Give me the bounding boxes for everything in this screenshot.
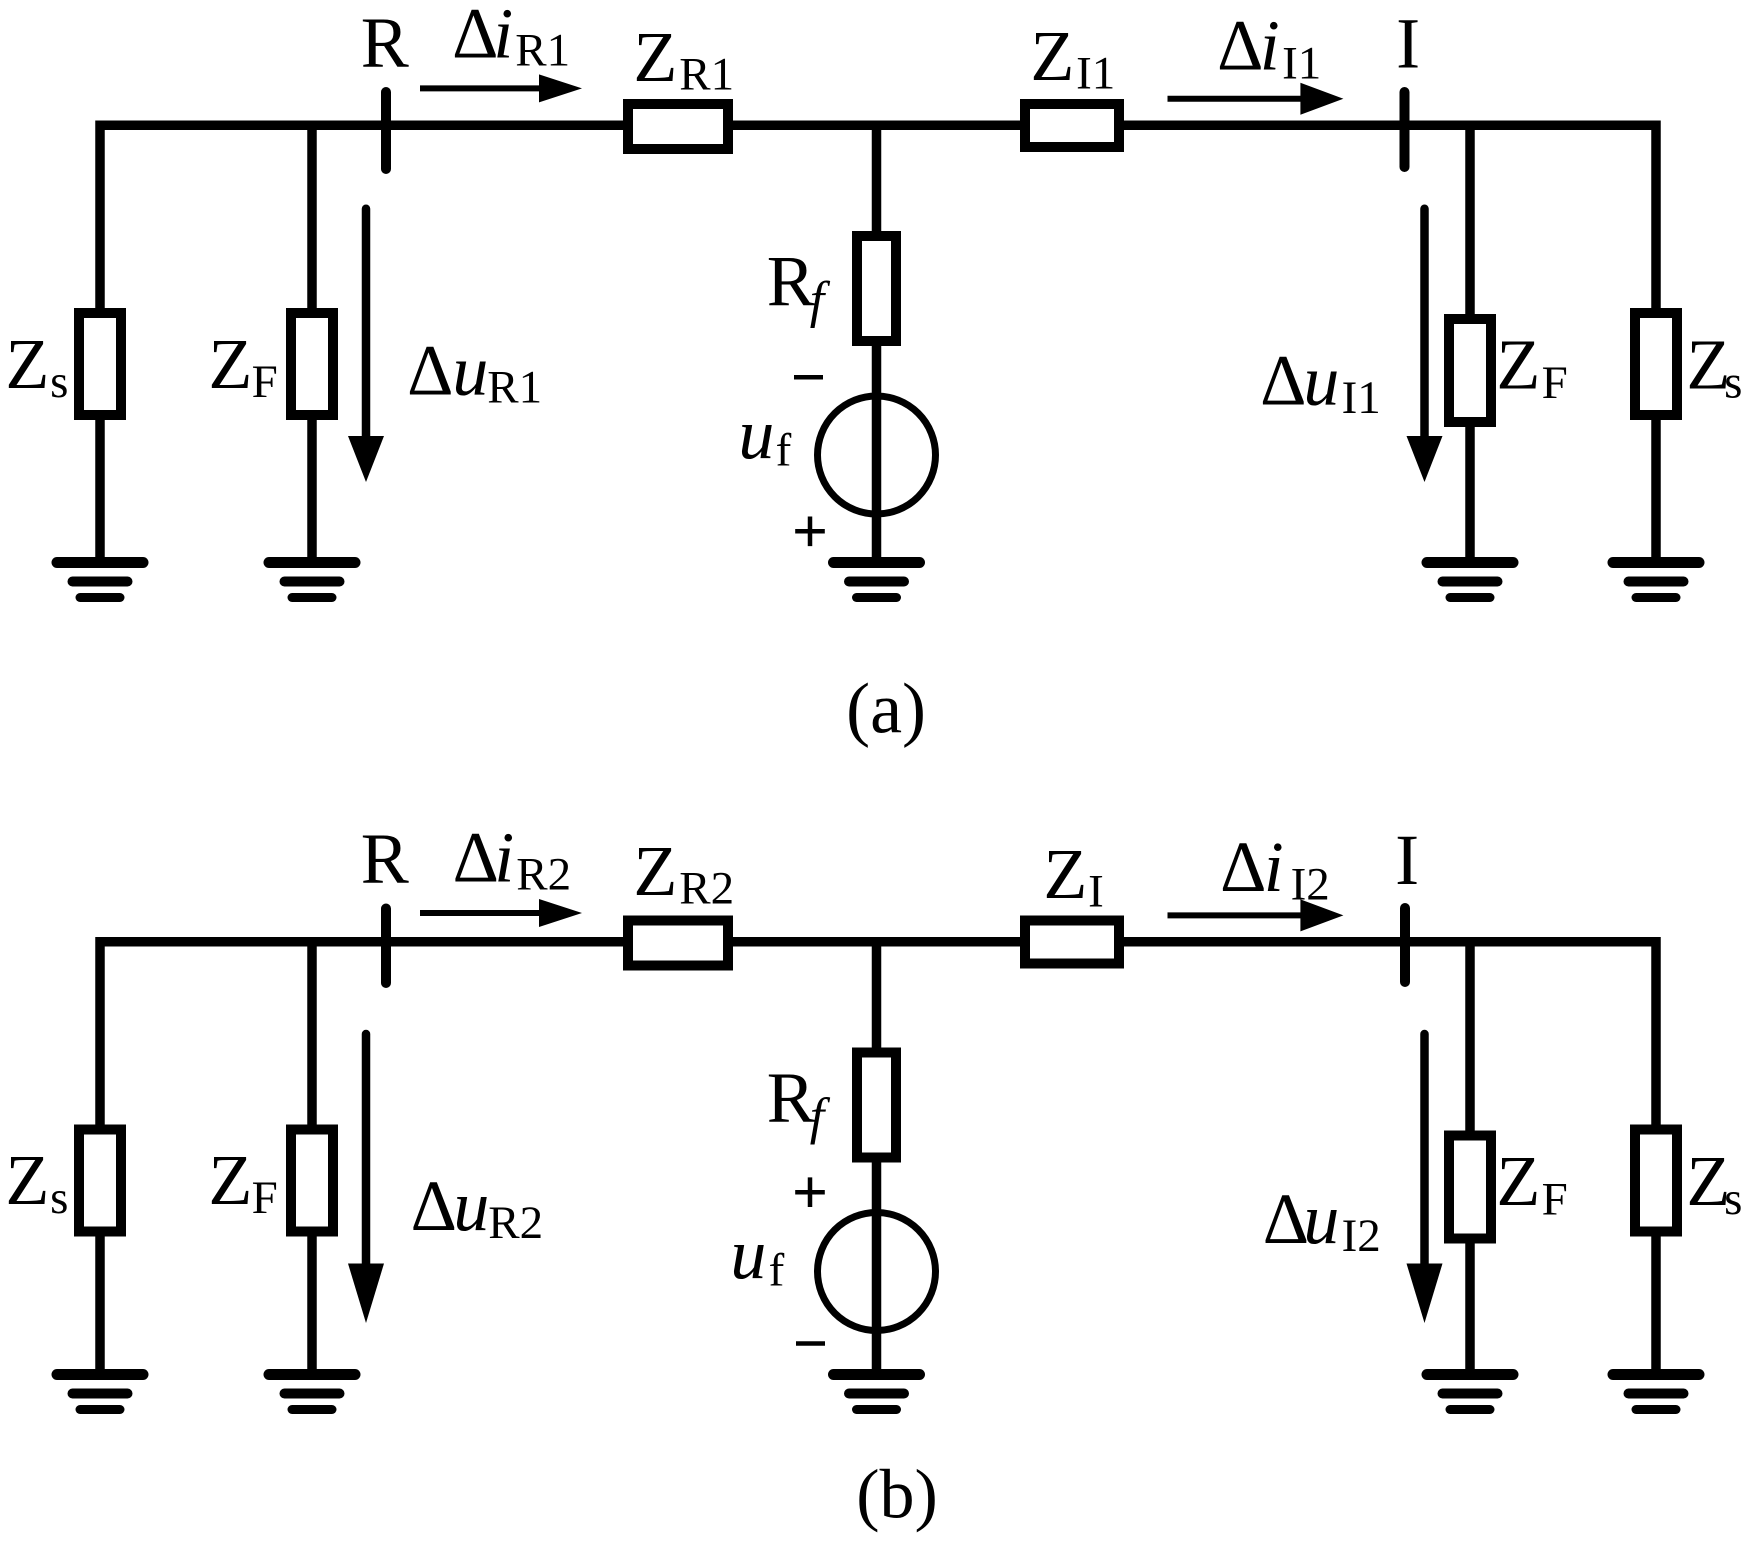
svg-text:F: F [1542, 1173, 1568, 1225]
svg-text:Z: Z [1496, 1141, 1540, 1221]
voltage arrow dU_R1 (a) [348, 209, 384, 482]
wire: ZsL bottom lead (b) [95, 1237, 105, 1376]
node I tick (a) [1400, 92, 1410, 167]
wire: ZsR bottom lead (a) [1651, 420, 1661, 563]
wire: top bus of circuit (a) with left/right corner drops [100, 125, 1656, 308]
svg-text:Δ: Δ [452, 0, 498, 74]
svg-text:s: s [1724, 1173, 1742, 1225]
svg-text:s: s [1724, 357, 1742, 409]
resistor Rf (a) [857, 236, 896, 341]
svg-text:u: u [730, 1214, 766, 1294]
wire: left ZF branch drop (a) [307, 125, 317, 308]
svg-text:R1: R1 [487, 362, 542, 414]
svg-text:R: R [361, 3, 409, 83]
svg-text:R: R [767, 1058, 815, 1138]
voltage arrow dU_I1 (a) [1407, 209, 1443, 482]
svg-text:I1: I1 [1282, 38, 1321, 90]
svg-text:u: u [1303, 340, 1339, 420]
svg-text:R2: R2 [679, 863, 734, 915]
wire: middle fault branch drop (a) [872, 125, 882, 236]
resistor ZF (a, right) [1449, 319, 1491, 422]
node R tick (b) [381, 909, 391, 984]
svg-text:I2: I2 [1291, 859, 1330, 911]
wire: ZFL bottom lead (b) [307, 1237, 317, 1376]
svg-text:f: f [769, 1245, 785, 1297]
resistor Zs (a, right) [1635, 313, 1677, 415]
svg-text:F: F [252, 356, 278, 408]
svg-text:u: u [738, 394, 774, 474]
svg-text:s: s [50, 356, 68, 408]
svg-text:Z: Z [5, 1140, 49, 1220]
resistor Zs (b, right) [1635, 1130, 1677, 1232]
svg-text:i: i [1264, 827, 1284, 907]
wire: ZFL bottom lead (a) [307, 420, 317, 563]
resistor ZF (b, right) [1449, 1136, 1491, 1239]
svg-text:R: R [767, 241, 815, 321]
resistor Zs (a, left) [79, 313, 121, 415]
svg-text:Z: Z [5, 324, 49, 404]
resistor ZR1 (a) [628, 104, 728, 149]
svg-text:F: F [252, 1172, 278, 1224]
svg-text:Z: Z [633, 17, 677, 97]
current arrow dI_I2 (b) [1168, 899, 1344, 931]
svg-text:R1: R1 [679, 49, 734, 101]
svg-text:s: s [50, 1172, 68, 1224]
plus sign of uf (b) [795, 1177, 825, 1207]
svg-text:R: R [361, 819, 409, 899]
minus sign of uf (b) [796, 1341, 825, 1346]
node I tick (b) [1400, 908, 1410, 982]
ground under ZF right (a) [1427, 563, 1513, 598]
svg-text:Z: Z [1496, 325, 1540, 405]
wire: ZsR bottom lead (b) [1651, 1237, 1661, 1376]
svg-text:u: u [452, 331, 488, 411]
resistor ZF (b, left) [291, 1130, 333, 1232]
svg-text:(a): (a) [846, 668, 926, 748]
wire: right ZF branch drop (b) [1465, 942, 1475, 1136]
svg-text:Δ: Δ [1220, 827, 1266, 907]
svg-text:I: I [1088, 866, 1104, 918]
wire: left ZF branch drop (b) [307, 942, 317, 1125]
ground under Zs right (b) [1613, 1375, 1699, 1410]
voltage arrow dU_I2 (b) [1407, 1034, 1443, 1323]
resistor ZI (b) [1025, 921, 1119, 964]
resistor ZF (a, left) [291, 313, 333, 415]
svg-text:R2: R2 [488, 1197, 543, 1249]
svg-text:Δ: Δ [407, 331, 453, 411]
wire: ZsL bottom lead (a) [95, 420, 105, 563]
ground under Zs left (a) [57, 563, 143, 598]
wire: right ZF branch drop (a) [1465, 125, 1475, 319]
svg-text:(b): (b) [856, 1457, 938, 1534]
ground under uf source (b) [834, 1375, 920, 1410]
svg-text:f: f [776, 425, 792, 477]
wire: ZFR bottom lead (b) [1465, 1243, 1475, 1376]
svg-text:i: i [1260, 5, 1280, 85]
svg-text:Z: Z [633, 831, 677, 911]
svg-text:I1: I1 [1342, 372, 1381, 424]
resistor ZR2 (b) [628, 921, 728, 966]
svg-text:u: u [1303, 1179, 1339, 1259]
ground under Zs right (a) [1613, 563, 1699, 598]
voltage arrow dU_R2 (b) [348, 1034, 384, 1323]
current arrow dI_R2 (b) [420, 899, 582, 927]
svg-text:I2: I2 [1342, 1210, 1381, 1262]
wire: middle fault branch drop (b) [872, 942, 882, 1053]
svg-text:Δ: Δ [1260, 340, 1306, 420]
svg-text:Z: Z [1043, 834, 1087, 914]
svg-text:Δ: Δ [1263, 1179, 1309, 1259]
resistor ZI1 (a) [1025, 104, 1119, 147]
svg-text:R1: R1 [515, 25, 570, 77]
current arrow dI_R1 (a) [420, 74, 582, 102]
resistor Zs (b, left) [79, 1130, 121, 1232]
node R tick (a) [381, 92, 391, 169]
svg-text:i: i [494, 817, 514, 897]
svg-text:F: F [1542, 357, 1568, 409]
voltage source uf circle (b) [818, 1213, 936, 1331]
minus sign of uf (a) [794, 375, 823, 380]
svg-text:I: I [1395, 820, 1419, 900]
ground under ZF left (b) [269, 1375, 355, 1410]
svg-text:u: u [453, 1166, 489, 1246]
svg-text:Z: Z [1030, 16, 1074, 96]
svg-text:Δ: Δ [1217, 5, 1263, 85]
resistor Rf (b) [857, 1053, 896, 1158]
svg-text:R2: R2 [516, 849, 571, 901]
ground under Zs left (b) [57, 1375, 143, 1410]
voltage source uf circle (a) [818, 396, 936, 514]
wire: Rf-to-ground lead through source (b) [872, 1158, 882, 1376]
ground under ZF right (b) [1427, 1375, 1513, 1410]
wire: Rf-to-ground lead through source (a) [872, 341, 882, 563]
wire: ZFR bottom lead (a) [1465, 426, 1475, 563]
current arrow dI_I1 (a) [1168, 83, 1344, 115]
svg-text:Δ: Δ [453, 817, 499, 897]
svg-text:I1: I1 [1076, 48, 1115, 100]
ground under ZF left (a) [269, 563, 355, 598]
svg-text:I: I [1396, 3, 1420, 83]
svg-text:Z: Z [208, 324, 252, 404]
plus sign of uf (a) [795, 517, 825, 547]
ground under uf source (a) [834, 563, 920, 598]
svg-text:Z: Z [208, 1140, 252, 1220]
svg-text:Δ: Δ [411, 1166, 457, 1246]
wire: top bus of circuit (b) with corner drops [100, 942, 1656, 1125]
svg-text:i: i [493, 0, 513, 74]
